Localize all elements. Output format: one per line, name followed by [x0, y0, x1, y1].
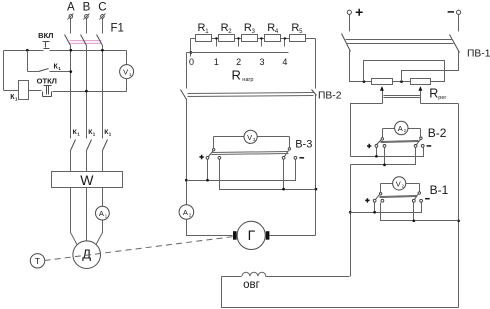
svg-text:R: R: [232, 67, 241, 82]
voltmeter V2: [381, 177, 420, 193]
contact K1 aux: [28, 51, 71, 72]
svg-text:4: 4: [282, 57, 287, 67]
svg-text:В-3: В-3: [295, 138, 312, 150]
wire PV-1 right pole down: [402, 52, 459, 82]
wire phase C below W: [102, 188, 104, 207]
contactor contact K1 phase A: [71, 129, 81, 172]
wire bottom control: [53, 91, 127, 93]
svg-text:V: V: [123, 68, 128, 77]
junction dot: [349, 211, 352, 214]
ammeter A2 right: [383, 121, 421, 137]
svg-text:А: А: [99, 209, 104, 218]
svg-text:нагр: нагр: [242, 77, 253, 83]
svg-text:Д: Д: [82, 247, 91, 262]
wire phase A vertical: [70, 46, 72, 139]
svg-text:ОТКЛ: ОТКЛ: [37, 76, 57, 85]
voltmeter V3: [214, 130, 290, 148]
tap 0: [189, 39, 194, 68]
junction dot: [457, 219, 460, 222]
svg-text:овг: овг: [243, 279, 260, 291]
tachometer T: [30, 254, 44, 268]
resistor R3: [235, 22, 258, 42]
wire between boxes: [393, 81, 411, 83]
relay coil K1: [4, 81, 29, 102]
svg-text:В-2: В-2: [428, 126, 447, 140]
svg-text:1: 1: [214, 57, 219, 67]
svg-text:ПВ-2: ПВ-2: [318, 90, 342, 101]
switch B-2: [367, 126, 447, 148]
junction dot: [26, 49, 29, 52]
junction dot: [69, 49, 72, 52]
wire wiper2 to right rail: [421, 103, 459, 105]
rheostat wiper 1: [380, 86, 384, 103]
ammeter A1: [96, 206, 110, 220]
junction dot: [69, 70, 72, 73]
switch PV-1: [342, 34, 490, 60]
wire right-left rail lower: [350, 165, 352, 277]
svg-text:В: В: [83, 2, 91, 14]
wire left rail: [3, 51, 5, 91]
node A: [67, 2, 75, 34]
wire phase B below W: [86, 188, 88, 241]
svg-text:Г: Г: [248, 227, 256, 243]
junction dot: [185, 179, 188, 182]
svg-text:R: R: [429, 87, 438, 101]
wire B-2 outer: [351, 148, 424, 158]
motor D: [73, 241, 101, 269]
wire bridge box2-right to box1-left: [364, 61, 445, 82]
svg-text:рег: рег: [438, 95, 446, 101]
button VKL: [38, 31, 53, 49]
wire generator right: [270, 235, 316, 237]
label Rreg: [429, 87, 446, 101]
wire middle right rail: [315, 39, 317, 89]
wire B-2 inner: [351, 148, 416, 167]
wire B-3 outer: [187, 160, 296, 182]
wire B-1 outer: [350, 203, 422, 214]
button OTKL: [29, 76, 57, 96]
wiper linkage: [384, 96, 421, 98]
contactor contact K1 phase C: [103, 129, 112, 172]
svg-text:ВКЛ: ВКЛ: [38, 31, 53, 40]
wire PV-1 left pole down: [350, 51, 372, 82]
wire bottom loop: [222, 277, 459, 308]
tap 3: [259, 37, 264, 67]
winding OVG: [222, 272, 350, 291]
wire B-3 inner: [220, 160, 316, 191]
resistor R1: [191, 22, 212, 42]
svg-text:А: А: [398, 124, 403, 133]
wattmeter W: [52, 172, 123, 189]
ammeter A2 middle: [179, 205, 194, 220]
wire rail to generator: [187, 220, 233, 236]
wire phase C to motor: [96, 221, 103, 246]
label Rnagr: [232, 67, 254, 83]
wire R5 to right rail: [306, 38, 316, 40]
svg-text:А: А: [67, 2, 75, 14]
tap 1: [214, 37, 219, 67]
resistor R2: [212, 22, 235, 42]
junction dot: [101, 49, 104, 52]
svg-text:V: V: [396, 179, 401, 188]
terminal plus: [347, 9, 363, 32]
resistor R4: [258, 22, 281, 42]
contactor contact K1 phase B: [87, 129, 96, 172]
svg-text:W: W: [80, 172, 94, 188]
svg-text:А: А: [183, 208, 188, 217]
wire phase A below W: [71, 188, 78, 246]
rheostat wiper 2: [418, 86, 422, 103]
svg-text:Т: Т: [35, 256, 40, 266]
node B: [83, 2, 91, 34]
svg-text:3: 3: [259, 57, 264, 67]
svg-text:V: V: [247, 133, 252, 142]
svg-text:ПВ-1: ПВ-1: [467, 48, 490, 59]
wire selector: [187, 52, 289, 54]
junction dot: [363, 80, 366, 83]
resistor R5: [281, 22, 306, 42]
wire phase C vertical: [102, 46, 104, 139]
wire phase B vertical: [86, 46, 88, 139]
svg-text:F1: F1: [111, 23, 124, 35]
junction dot: [400, 80, 403, 83]
switch PV-2: [181, 90, 342, 102]
wire middle left rail: [186, 99, 188, 206]
wire wiper1 to left rail: [351, 104, 383, 157]
junction dot: [85, 90, 88, 93]
generator G: [233, 221, 269, 249]
shaft coupling dashed: [45, 235, 248, 261]
svg-text:2: 2: [236, 57, 241, 67]
circuit breaker F1: [65, 23, 124, 46]
tap 4: [282, 37, 287, 67]
svg-text:В-1: В-1: [430, 183, 449, 197]
terminal minus: [448, 10, 461, 31]
rheostat Rreg box 2: [411, 79, 431, 85]
switch B-3: [199, 138, 312, 159]
svg-text:С: С: [98, 2, 106, 14]
switch B-1: [365, 183, 448, 203]
rheostat Rreg box 1: [372, 79, 393, 85]
voltmeter V1: [120, 51, 134, 92]
wire top control: [4, 50, 44, 52]
node C: [98, 2, 106, 34]
svg-text:0: 0: [189, 57, 194, 67]
wire B-1 inner: [381, 203, 459, 223]
wire right rail: [458, 104, 460, 308]
tap 2: [236, 37, 241, 67]
junction dot: [315, 188, 318, 191]
wire middle left rail upper: [186, 53, 188, 89]
